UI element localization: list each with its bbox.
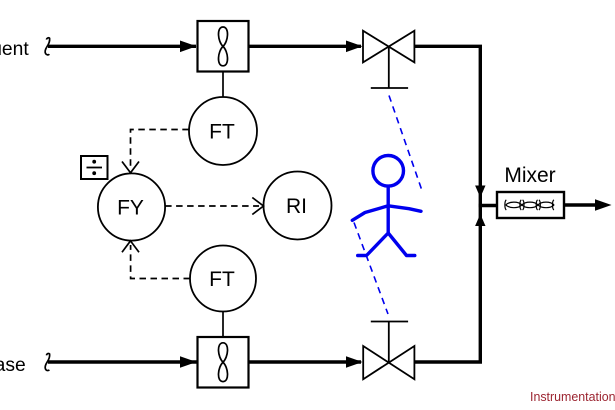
valve top (handle bar) [371, 87, 408, 89]
wire: bottom pipe to riser [414, 206, 480, 363]
arrowhead into top valve [346, 41, 363, 53]
signal: FT bottom to FY (dashed) [131, 245, 190, 279]
valve top (body) [363, 31, 414, 63]
valve bottom (stem) [388, 322, 390, 363]
arrowhead up on riser [475, 214, 485, 226]
svg-text:Base: Base [0, 355, 26, 376]
transmitter FT bottom (circle) [190, 246, 256, 312]
flow element FE top (box) [198, 21, 249, 72]
arrowhead into bottom flow element [180, 356, 197, 368]
wire: top pipe to downcomer [414, 46, 480, 205]
valve bottom (handle bar) [371, 321, 408, 323]
operator stick figure (head) [373, 156, 404, 187]
flow element FE bottom (figure-eight) [218, 343, 227, 382]
svg-text:RI: RI [286, 195, 307, 218]
flow element FE bottom (box) [198, 337, 249, 388]
break squiggle top pipe [45, 38, 49, 55]
valve bottom (body) [363, 346, 414, 379]
wire: mixer outlet [564, 203, 596, 206]
arrowhead down on downcomer [475, 186, 485, 198]
wire: FE top to FT top [222, 72, 224, 98]
arrowhead into RI (open) [252, 198, 263, 215]
divide symbol [87, 160, 103, 175]
arrowhead mixer outlet [595, 199, 612, 211]
wire: top pipe inlet [48, 45, 196, 48]
svg-text:FT: FT [209, 121, 235, 144]
indicator RI (circle) [264, 172, 332, 240]
flow element FE top (figure-eight) [218, 27, 227, 66]
mixer (static mixing elements) [505, 200, 554, 210]
wire: top pipe between FE and valve [249, 45, 362, 48]
operator stick figure (arms) [352, 206, 421, 221]
divide function box [81, 156, 108, 179]
operator stick figure (right leg and foot) [388, 233, 415, 256]
svg-text:Mixer: Mixer [504, 164, 555, 187]
signal: FY to RI (dashed) [165, 205, 259, 207]
svg-text:FY: FY [117, 197, 144, 220]
break squiggle bottom pipe [45, 353, 49, 370]
mixer (box) [497, 192, 564, 218]
wire: bottom pipe inlet [48, 360, 361, 363]
svg-text:Instrumentation: Instrumentation [530, 390, 615, 404]
valve top (stem) [388, 47, 390, 89]
manual link: operator to bottom valve (blue dashed) [354, 223, 388, 315]
transmitter FT top (circle) [189, 97, 257, 165]
relay FY (circle) [98, 173, 165, 240]
arrowhead into top flow element [180, 41, 197, 53]
signal: FT top to FY (dashed) [131, 130, 189, 170]
wire: FT bottom to FE bottom [222, 312, 224, 338]
operator stick figure (left leg and foot) [358, 233, 389, 256]
manual link: top valve to operator (blue dashed) [389, 96, 423, 193]
wire: junction into mixer [479, 204, 498, 207]
operator stick figure (body) [387, 186, 390, 233]
svg-text:uent: uent [0, 39, 29, 60]
arrowhead into FY bottom (open) [122, 241, 139, 252]
label Influent (cut at left edge) [0, 39, 29, 60]
arrowhead into bottom valve [346, 356, 363, 368]
label Base (cut at left edge) [0, 355, 26, 376]
arrowhead into FY top (open) [122, 162, 139, 173]
svg-text:FT: FT [209, 268, 235, 291]
